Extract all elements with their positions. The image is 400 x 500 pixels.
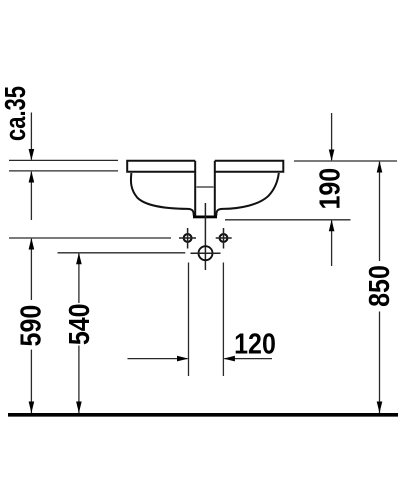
dimension ca.35 lower arrowhead (29, 171, 35, 183)
dimension 540 bottom arrowhead (76, 402, 82, 414)
svg-text:190: 190 (314, 168, 346, 210)
svg-text:540: 540 (64, 303, 96, 345)
waterline mark inside column (197, 186, 214, 188)
dimension 590 line lower segment (30, 350, 32, 413)
dimension ca.35 lower leader (30, 172, 32, 220)
floor line (8, 413, 398, 417)
dimension 850 line lower segment (379, 312, 381, 414)
svg-text:120: 120 (234, 328, 276, 360)
fixing hole left crosshair horizontal (179, 237, 196, 239)
drain hole crosshair horizontal (191, 252, 221, 254)
dimension 120 right arrowhead (223, 356, 235, 362)
right reference line (rim level) (294, 160, 397, 162)
reference line 190 bottom level (225, 219, 351, 221)
fixing hole right crosshair horizontal (216, 237, 232, 239)
dimension 590 top arrowhead (29, 238, 35, 250)
svg-text:590: 590 (15, 305, 47, 347)
svg-text:850: 850 (363, 265, 395, 307)
drain outlet end bar (193, 216, 217, 219)
fixing hole left circle (184, 234, 192, 242)
basin overflow column right edge (214, 161, 216, 216)
dimension 540 line upper segment (78, 254, 80, 303)
vertical centerline through drain (204, 203, 206, 270)
dimension 190 upper leader (331, 113, 333, 160)
dimension 540 line lower segment (78, 346, 80, 414)
dimension 540 top arrowhead (76, 253, 82, 264)
countertop left section top line (9, 159, 118, 161)
drain hole circle (199, 246, 213, 260)
dimension 590 line upper segment (30, 239, 32, 300)
svg-text:ca.35: ca.35 (0, 86, 31, 141)
dimension 190 lower leader (331, 221, 333, 266)
fixing hole right circle (220, 234, 228, 242)
reference line 540 level (58, 252, 186, 254)
dimension 850 line upper segment (379, 162, 381, 261)
bowl outer wall right (216, 173, 278, 216)
dimension 850 top arrowhead (377, 161, 383, 173)
dimension ca.35 upper leader (30, 113, 32, 160)
bowl outer wall left (131, 173, 194, 216)
dimension 850 bottom arrowhead (377, 402, 383, 414)
dimension 120 left arrowhead (177, 356, 189, 362)
dimension 120 right arrow line (224, 358, 272, 360)
reference line 590 level (9, 237, 171, 239)
dimension 120 extension line left (188, 263, 190, 377)
basin flange (127, 161, 283, 172)
dimension 190 upper arrowhead (329, 150, 335, 162)
fixing hole left crosshair vertical (187, 228, 189, 249)
dimension 120 left arrow line (128, 358, 188, 360)
fixing hole right crosshair vertical (223, 228, 225, 249)
dimension 190 lower arrowhead (329, 220, 335, 232)
dimension 590 bottom arrowhead (29, 402, 35, 414)
basin overflow column left edge (194, 161, 196, 216)
dimension 120 extension line right (222, 263, 224, 377)
dimension ca.35 upper arrowhead (29, 149, 35, 160)
countertop left section bottom line (9, 170, 118, 172)
